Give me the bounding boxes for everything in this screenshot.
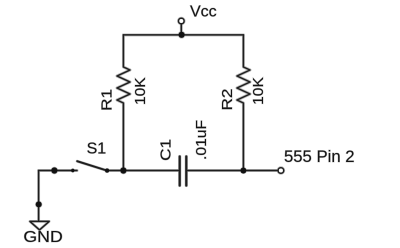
svg-text:R1: R1 bbox=[98, 89, 115, 111]
svg-text:C1: C1 bbox=[157, 139, 174, 161]
svg-text:Vcc: Vcc bbox=[190, 4, 217, 21]
svg-text:.01uF: .01uF bbox=[193, 120, 210, 160]
svg-text:10K: 10K bbox=[132, 77, 149, 105]
svg-text:10K: 10K bbox=[250, 77, 267, 105]
svg-text:R2: R2 bbox=[219, 89, 236, 111]
svg-text:555 Pin 2: 555 Pin 2 bbox=[284, 147, 355, 166]
svg-text:S1: S1 bbox=[87, 141, 107, 158]
svg-text:GND: GND bbox=[23, 229, 62, 246]
